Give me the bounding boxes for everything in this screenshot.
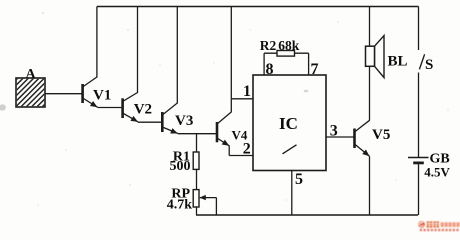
svg-text:8: 8 [266, 61, 274, 78]
svg-text:S: S [425, 57, 433, 73]
svg-text:2: 2 [243, 140, 251, 157]
svg-text:V1: V1 [93, 88, 111, 104]
svg-text:IC: IC [279, 114, 298, 133]
svg-text:3: 3 [330, 122, 338, 139]
svg-text:4.5V: 4.5V [424, 164, 450, 179]
svg-text:7: 7 [311, 61, 319, 78]
svg-text:V3: V3 [175, 113, 193, 129]
svg-text:BL: BL [388, 53, 408, 69]
svg-text:4.7k: 4.7k [167, 197, 193, 212]
svg-text:1: 1 [243, 83, 251, 100]
svg-text:5: 5 [295, 171, 303, 188]
svg-text:R2: R2 [260, 38, 277, 53]
svg-text:68k: 68k [278, 38, 300, 53]
svg-text:500: 500 [170, 159, 191, 174]
svg-text:A: A [25, 67, 36, 82]
svg-text:V5: V5 [372, 127, 390, 143]
svg-text:V2: V2 [134, 101, 152, 117]
